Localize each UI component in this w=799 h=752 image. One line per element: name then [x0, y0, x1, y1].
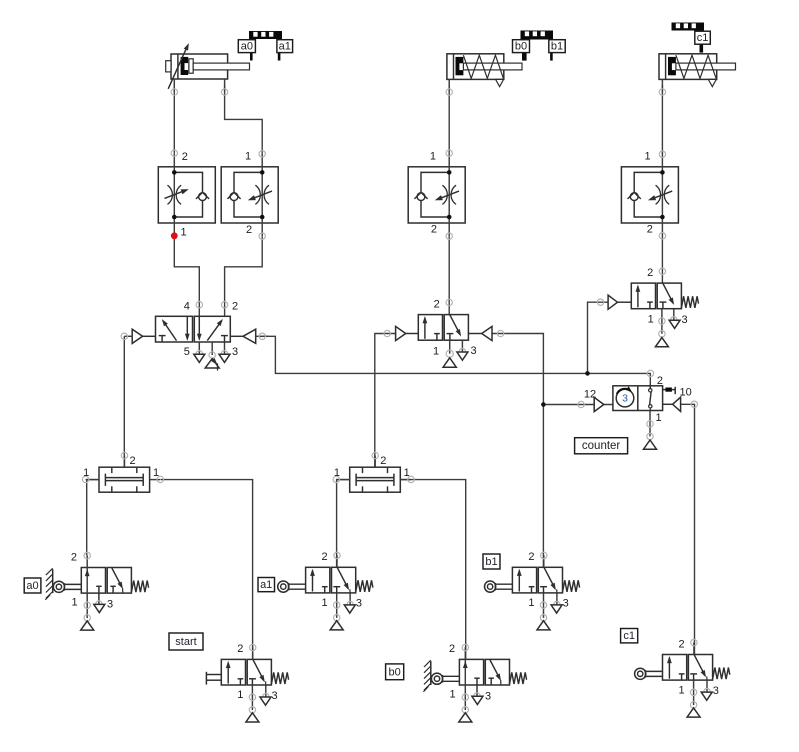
- label start: [169, 633, 203, 650]
- wire AND2 right port to b0 valve port 2: [400, 480, 465, 660]
- svg-text:1: 1: [71, 597, 77, 609]
- svg-text:2: 2: [322, 551, 328, 563]
- cylinder B single-acting spring return: [446, 54, 522, 95]
- svg-text:2: 2: [678, 638, 684, 650]
- svg-text:1: 1: [245, 151, 251, 163]
- svg-text:c1: c1: [623, 630, 635, 642]
- svg-text:3: 3: [107, 599, 113, 611]
- wire AND2 left port down to a1 valve port 2: [337, 480, 350, 568]
- svg-text:1: 1: [430, 151, 436, 163]
- wire junction to counter pilot 12: [543, 404, 613, 406]
- svg-text:1: 1: [83, 467, 89, 479]
- ruler scale for cylinder C: [672, 23, 705, 31]
- svg-text:3: 3: [563, 598, 569, 610]
- roller limit valve c1: [635, 638, 730, 717]
- cylinder A double-acting with position scale a0 a1: [166, 43, 250, 95]
- svg-text:2: 2: [449, 643, 455, 655]
- two-pressure AND valve 2: [333, 452, 414, 492]
- svg-text:a1: a1: [260, 579, 272, 591]
- svg-text:2: 2: [246, 224, 252, 236]
- svg-text:1: 1: [153, 467, 159, 479]
- push-button start valve: [206, 643, 288, 722]
- pressure mark red dot at FC1 port 1: [171, 232, 178, 239]
- svg-text:12: 12: [584, 388, 596, 400]
- junction b1 output to counter pilot: [541, 402, 546, 407]
- label b0: [386, 664, 404, 680]
- wire cylinder C port to flow valve FCC: [661, 85, 663, 154]
- 3/2-way pilot valve V3 with spring return: [597, 267, 698, 347]
- wire FC2 port2 to 5/2 valve port 2: [225, 236, 263, 316]
- roller limit valve a1: [278, 551, 373, 630]
- svg-text:c1: c1: [697, 32, 709, 44]
- roller limit valve b0 actuated: [423, 643, 526, 722]
- svg-text:1: 1: [433, 346, 439, 358]
- wire FCB port2 to valve V2 port 2: [448, 236, 450, 314]
- svg-text:2: 2: [232, 300, 238, 312]
- svg-text:a0: a0: [241, 41, 253, 53]
- roller limit valve b1: [485, 551, 580, 630]
- wire cylinder A right port to flow valve FC2: [225, 85, 263, 153]
- svg-text:b1: b1: [551, 41, 563, 53]
- svg-text:a1: a1: [279, 41, 291, 53]
- wire FCC port2 to valve V3 port 2: [661, 236, 663, 283]
- svg-text:b1: b1: [485, 556, 497, 568]
- wire FC1 port1 to 5/2 valve port 4: [174, 236, 199, 316]
- wire bus junction up to V3 left pilot: [588, 302, 609, 373]
- svg-text:3: 3: [713, 685, 719, 697]
- flow control valve FC1 ports 2-1: [158, 150, 215, 238]
- svg-text:2: 2: [380, 455, 386, 467]
- svg-text:3: 3: [682, 314, 688, 326]
- svg-text:2: 2: [71, 551, 77, 563]
- svg-text:2: 2: [657, 375, 663, 387]
- svg-text:1: 1: [450, 689, 456, 701]
- svg-text:1: 1: [678, 684, 684, 696]
- flow control valve FCC ports 1-2: [621, 151, 678, 275]
- svg-text:10: 10: [679, 386, 691, 398]
- preset counter with pilot 12 and reset 10: [578, 370, 698, 449]
- svg-text:b0: b0: [515, 41, 527, 53]
- cylinder C single-acting spring return: [659, 54, 736, 95]
- marker b1: [549, 40, 565, 61]
- svg-text:1: 1: [648, 314, 654, 326]
- flow control valve FC2 ports 1-2: [221, 151, 278, 240]
- wire counter port 10 pilot down to c1 valve port 2: [681, 404, 695, 654]
- wire AND1 right port to start valve port 2: [161, 480, 253, 660]
- svg-text:start: start: [175, 636, 196, 648]
- svg-text:1: 1: [237, 689, 243, 701]
- marker c1: [695, 31, 711, 53]
- svg-text:3: 3: [470, 345, 476, 357]
- svg-text:2: 2: [647, 224, 653, 236]
- marker a1: [277, 39, 293, 61]
- svg-text:2: 2: [434, 299, 440, 311]
- 3/2-way double pilot valve V2: [384, 299, 504, 368]
- wire 5/2 left pilot to AND1 port 2: [123, 336, 125, 467]
- svg-text:4: 4: [184, 300, 190, 312]
- svg-text:3: 3: [232, 346, 238, 358]
- label b1: [483, 554, 500, 569]
- junction bus to V3 pilot: [585, 371, 590, 376]
- two-pressure AND valve 1: [82, 452, 163, 492]
- wire AND2 port2 up to V2 left pilot: [375, 334, 396, 468]
- counter text label: [575, 438, 628, 454]
- marker b0: [513, 40, 530, 61]
- svg-text:2: 2: [431, 224, 437, 236]
- wire V2 right pilot down to b1 valve port 2: [492, 334, 543, 568]
- wire cylinder A left port to flow valve FC1: [173, 85, 175, 153]
- svg-text:a0: a0: [26, 580, 38, 592]
- svg-text:2: 2: [647, 267, 653, 279]
- svg-text:2: 2: [130, 455, 136, 467]
- wire cylinder B port to flow valve FCB: [448, 85, 450, 153]
- svg-text:5: 5: [184, 346, 190, 358]
- svg-text:3: 3: [622, 393, 628, 405]
- svg-text:1: 1: [181, 226, 187, 238]
- label a1: [258, 578, 275, 592]
- svg-text:b0: b0: [388, 666, 400, 678]
- svg-text:1: 1: [404, 467, 410, 479]
- marker a0: [238, 39, 255, 61]
- roller limit valve a0 actuated: [45, 551, 148, 630]
- svg-text:1: 1: [322, 597, 328, 609]
- svg-text:1: 1: [656, 412, 662, 424]
- svg-text:counter: counter: [582, 440, 621, 452]
- svg-text:3: 3: [356, 598, 362, 610]
- svg-text:3: 3: [485, 691, 491, 703]
- svg-text:2: 2: [182, 151, 188, 163]
- svg-text:1: 1: [334, 467, 340, 479]
- svg-text:1: 1: [645, 151, 651, 163]
- label a0: [24, 578, 41, 593]
- svg-text:3: 3: [272, 690, 278, 702]
- svg-text:2: 2: [237, 643, 243, 655]
- wire 5/2 right pilot along bus to counter port 2: [262, 336, 650, 389]
- ruler scale for cylinder A: [249, 31, 282, 39]
- wire AND1 left port down to a0 valve port 2: [87, 480, 99, 556]
- label c1: [621, 629, 638, 643]
- flow control valve FCB ports 1-2: [408, 150, 465, 306]
- 5/2-way double pilot valve V1: [121, 300, 268, 370]
- svg-text:1: 1: [528, 597, 534, 609]
- svg-text:2: 2: [528, 551, 534, 563]
- ruler scale for cylinder B: [521, 31, 554, 40]
